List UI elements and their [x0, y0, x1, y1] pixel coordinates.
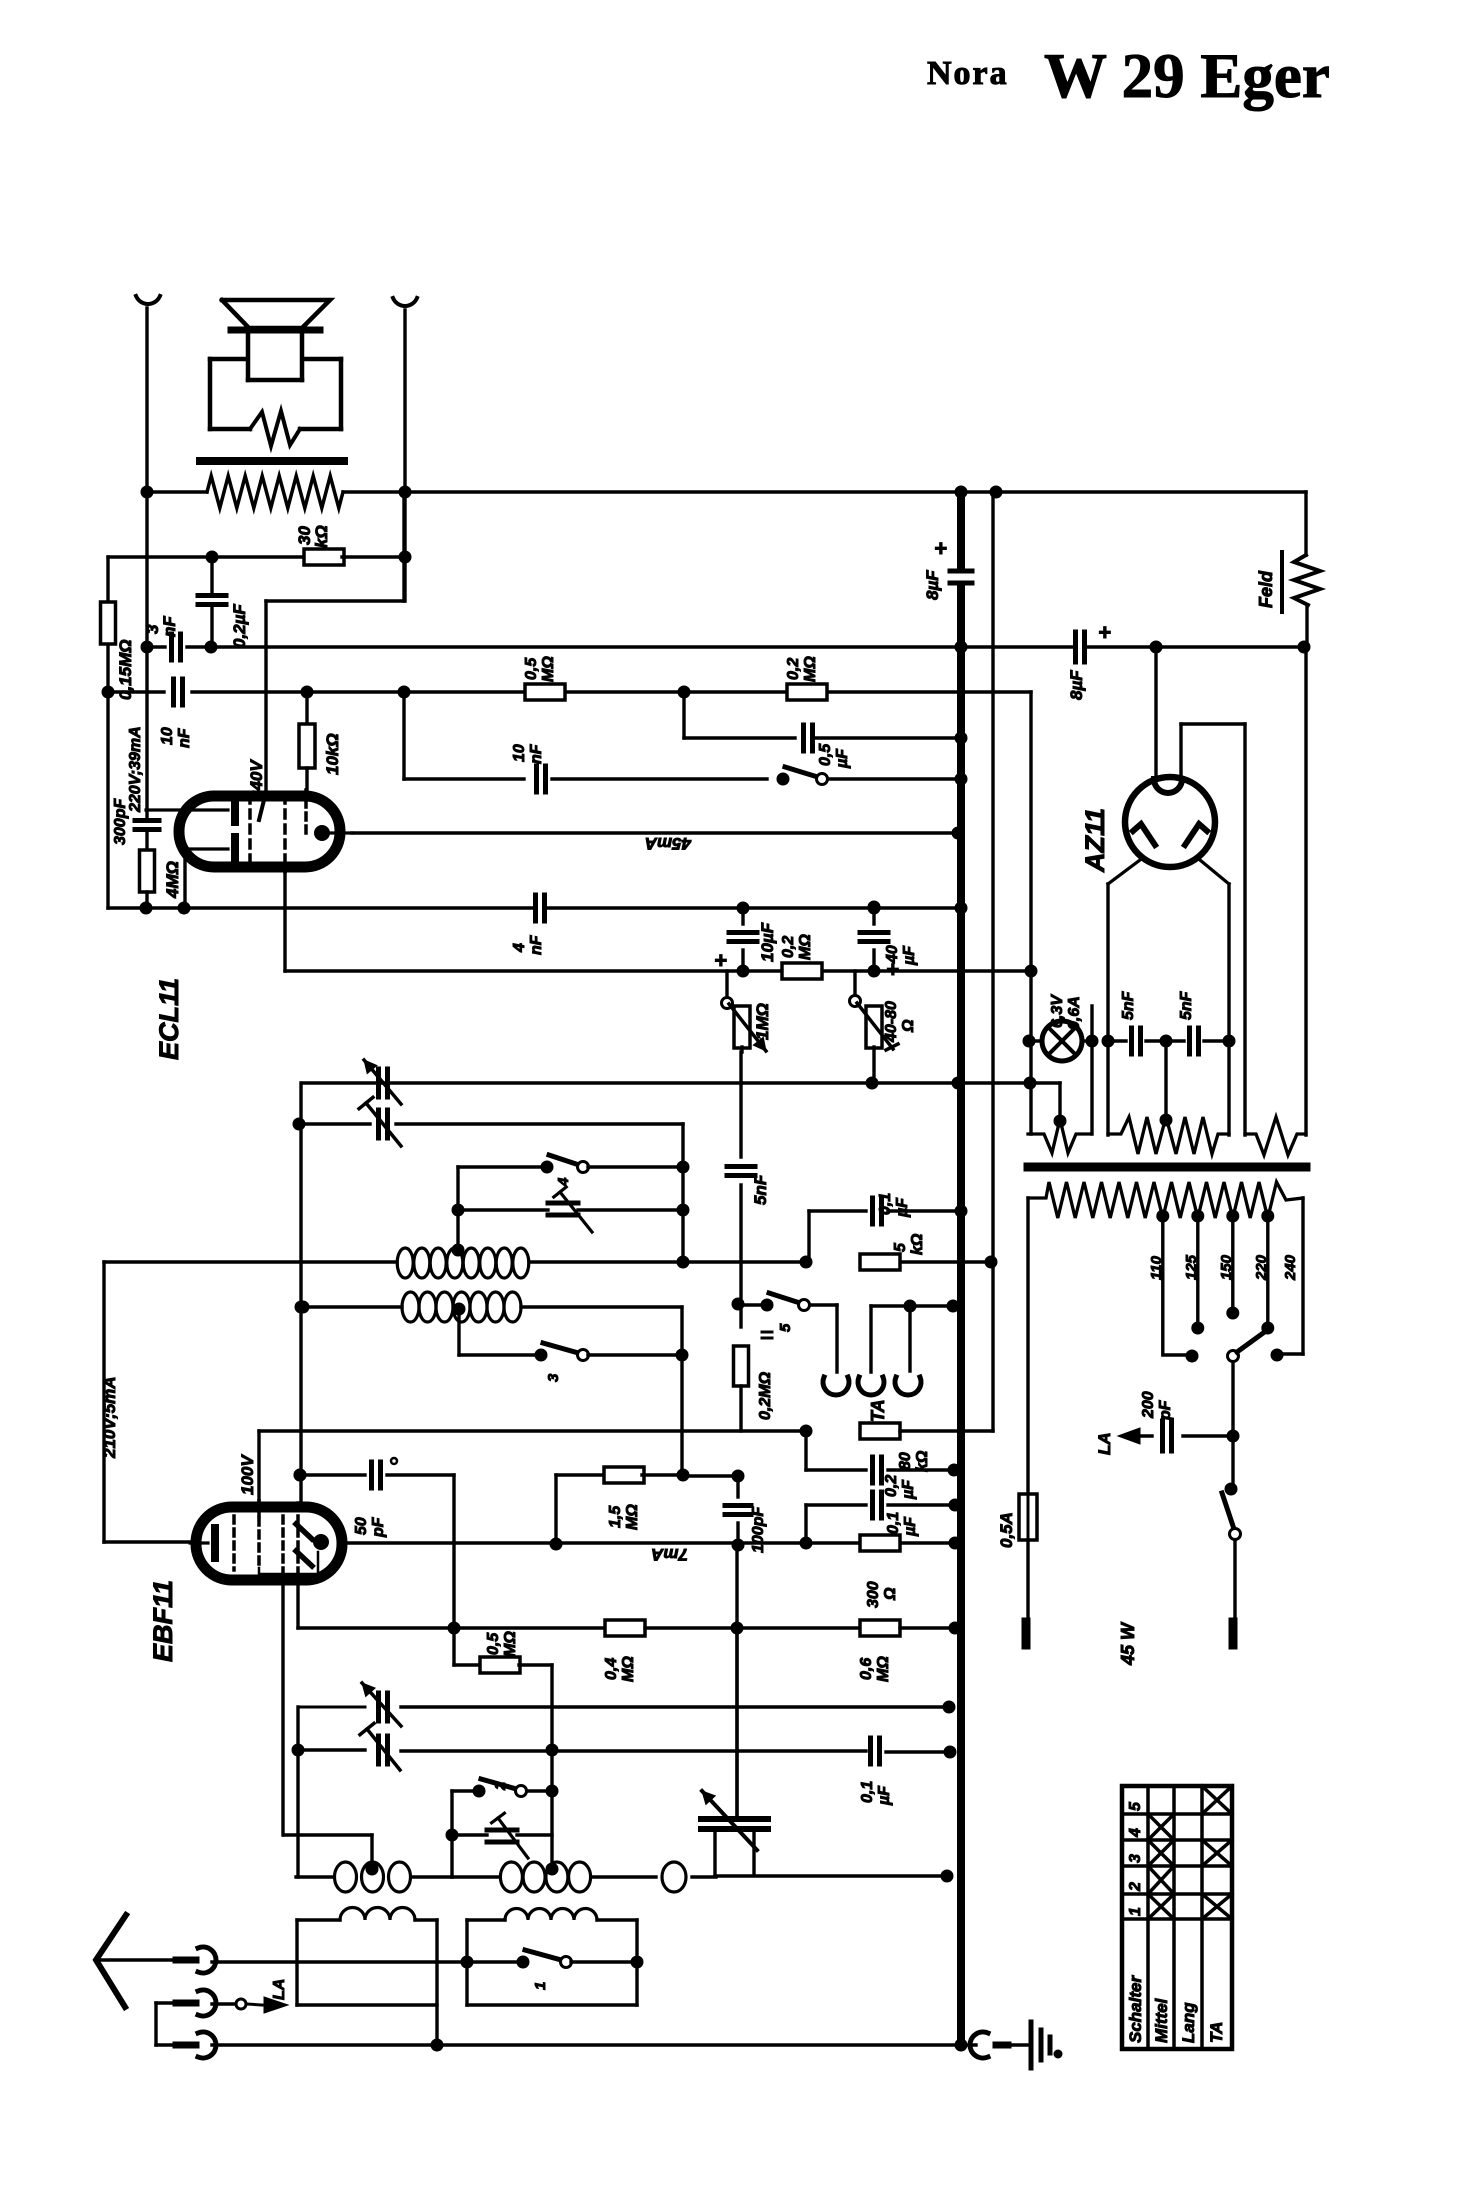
svg-text:0,1: 0,1 [859, 1781, 876, 1803]
svg-text:5: 5 [777, 1323, 794, 1332]
wire 647 to Feld [1156, 641, 1310, 653]
coil oscillator primary [397, 1244, 529, 1278]
svg-text:Ω: Ω [900, 1019, 917, 1033]
svg-text:µF: µF [876, 1785, 893, 1806]
wire primary right 240 [1271, 1198, 1303, 1361]
capacitor trimmer 2 [452, 1813, 552, 1858]
svg-text:3: 3 [1127, 1854, 1144, 1863]
svg-text:5nF: 5nF [1120, 990, 1137, 1020]
label Feld [1256, 552, 1282, 612]
label TA [868, 1399, 888, 1422]
capacitor 0,1µF avc [859, 1738, 956, 1806]
capacitor 5nF a [1120, 990, 1141, 1054]
wire ant gang line y1707 [298, 1683, 955, 1726]
svg-text:0,6A: 0,6A [1066, 996, 1083, 1030]
switch 5 [732, 1293, 837, 1372]
wire primary left to fuse [1026, 1198, 1029, 1494]
svg-text:Nora: Nora [927, 55, 1009, 92]
switch 2 [446, 1779, 552, 1877]
ground symbol [1031, 2022, 1062, 2068]
wire ECL11 cathode pin [183, 849, 186, 908]
label AZ11 [1080, 808, 1110, 873]
terminal mains right [1229, 1622, 1238, 1645]
coil oscillator secondary [297, 1292, 682, 1355]
svg-text:300: 300 [865, 1581, 882, 1608]
wire lamp right stub [1090, 1006, 1093, 1134]
wire top line y492 [148, 486, 1306, 498]
svg-text:5nF: 5nF [1178, 990, 1195, 1020]
wire osc anode line y1262 [104, 1256, 997, 1268]
capacitor 5nF mid [727, 1052, 770, 1304]
coil Feld (field) [1294, 492, 1320, 647]
svg-text:MΩ: MΩ [802, 656, 819, 682]
svg-text:4: 4 [555, 1177, 572, 1187]
svg-text:MΩ: MΩ [875, 1656, 892, 1682]
output transformer core [200, 457, 344, 465]
wire ECL11 cathode line y908 [108, 902, 967, 914]
tube EBF11 internals [190, 1501, 329, 1580]
svg-text:nF: nF [528, 743, 545, 764]
svg-text:Lang: Lang [1179, 2002, 1198, 2043]
label 210V,5mA [100, 1376, 119, 1459]
svg-text:+: + [886, 957, 899, 982]
title W 29 Eger [1044, 41, 1330, 111]
wire EBF11 plate line 7mA [342, 1537, 961, 1549]
svg-text:nF: nF [160, 616, 179, 637]
wire B+ feed x992 [991, 492, 994, 1262]
wire EBF11 diode pin x283 [281, 1580, 284, 1835]
wire grid return y971 [285, 965, 1037, 977]
svg-text:125: 125 [1183, 1254, 1200, 1280]
svg-text:5nF: 5nF [751, 1174, 770, 1205]
svg-text:Schalter: Schalter [1126, 1975, 1145, 2043]
capacitor 10nF left [159, 679, 193, 748]
capacitor 0,2µF bypass [806, 1431, 960, 1500]
resistor 80kΩ [860, 1262, 993, 1472]
terminal LS right (Y cup) [393, 298, 417, 306]
svg-text:40-80: 40-80 [883, 1001, 900, 1043]
resistor 0,2MΩ top [785, 656, 827, 700]
capacitor 4nF [511, 895, 545, 955]
svg-text:5: 5 [1127, 1801, 1144, 1811]
capacitor 8µF first [923, 536, 972, 600]
capacitor 8µF second [1067, 620, 1162, 700]
svg-text:AZ11: AZ11 [1080, 808, 1110, 873]
capacitor 0,1µF bypass [806, 1492, 961, 1545]
fuse 0,5A [997, 1494, 1037, 1622]
svg-text:0,5: 0,5 [817, 743, 834, 766]
tap 150 [1218, 1218, 1239, 1319]
resistor 4MΩ [140, 833, 183, 908]
capacitor trimmer osc gang [364, 1060, 401, 1104]
svg-text:nF: nF [176, 727, 193, 748]
wire AZ11 filament left [1102, 860, 1140, 1135]
svg-text:Mittel: Mittel [1152, 1997, 1171, 2043]
wire 5nF line y1041 [1108, 1035, 1229, 1119]
svg-text:80: 80 [897, 1452, 914, 1470]
svg-text:50: 50 [353, 1517, 370, 1535]
terminal mains left [1022, 1622, 1031, 1645]
label 45mA [645, 834, 692, 853]
tube AZ11 anode marks [1133, 824, 1207, 845]
transformer core [1028, 1163, 1306, 1172]
wire LS-right vertical x405 [399, 310, 411, 601]
svg-text:1: 1 [1127, 1907, 1144, 1916]
wire EBF11 diode line y1835 [284, 1835, 372, 1866]
svg-text:MΩ: MΩ [624, 1504, 641, 1530]
wire AZ11 anode1 feed [1154, 647, 1157, 777]
svg-text:TA: TA [1207, 2022, 1226, 2043]
svg-text:0,5: 0,5 [523, 657, 540, 680]
wire x108 lower [102, 686, 114, 908]
svg-text:MΩ: MΩ [797, 934, 814, 960]
svg-text:150: 150 [1218, 1254, 1235, 1280]
svg-text:8µF: 8µF [1067, 670, 1086, 700]
svg-text:10: 10 [511, 744, 528, 762]
svg-text:110: 110 [1148, 1255, 1165, 1280]
wire antenna line y1960 [100, 1947, 467, 1973]
tap 110 [1148, 1218, 1198, 1362]
resistor 300Ω [860, 1535, 900, 1608]
svg-text:220: 220 [1253, 1254, 1270, 1281]
jack LA input [156, 1979, 288, 2016]
svg-text:2: 2 [1127, 1882, 1144, 1892]
capacitor main tuning [701, 1630, 953, 1882]
svg-text:45mA: 45mA [645, 834, 692, 853]
svg-text:0,5: 0,5 [485, 1632, 502, 1655]
table X marks TA [1202, 1786, 1232, 1919]
svg-text:0,2µF: 0,2µF [230, 604, 249, 648]
svg-text:240: 240 [1282, 1254, 1299, 1281]
capacitor 200pF [1095, 1391, 1233, 1455]
svg-text:0,2MΩ: 0,2MΩ [757, 1371, 774, 1420]
wire pots ground y1083 [303, 1077, 1060, 1117]
table X marks Mittel [1148, 1814, 1174, 1919]
wire detector x737 [735, 1545, 738, 1817]
svg-text:5: 5 [892, 1242, 909, 1252]
svg-text:0,5A: 0,5A [997, 1512, 1016, 1548]
svg-text:µF: µF [900, 1479, 917, 1500]
svg-text:3: 3 [545, 1373, 562, 1382]
tube AZ11 envelope [1125, 777, 1215, 867]
svg-text:+: + [934, 536, 947, 561]
wire y907 electrolytic top [868, 901, 880, 913]
svg-text:6,3V: 6,3V [1049, 994, 1066, 1028]
resistor 0,2MΩ series [734, 1304, 775, 1431]
jack TA 3 [871, 1300, 961, 1395]
svg-text:7mA: 7mA [651, 1545, 688, 1564]
jack TA 1 [823, 1377, 849, 1395]
speaker cone [222, 300, 330, 330]
switch tone (on y779) [404, 692, 967, 792]
svg-text:0,2: 0,2 [785, 658, 802, 680]
svg-text:LA: LA [1095, 1432, 1114, 1455]
coil box E (LA) [467, 1909, 637, 2005]
svg-text:LA: LA [271, 1979, 288, 2000]
label 100V [238, 1454, 257, 1495]
svg-text:0,1: 0,1 [877, 1193, 894, 1215]
capacitor 0,5µF [684, 692, 967, 769]
rheostat 40-80Ω [850, 971, 918, 1083]
svg-text:µF: µF [901, 945, 918, 966]
resistor 0,6MΩ [737, 1620, 961, 1682]
wire osc coil tap x459 [457, 1310, 460, 1355]
tube EBF11 envelope [196, 1507, 342, 1580]
transformer primary winding [1028, 1182, 1303, 1222]
svg-text:200: 200 [1140, 1391, 1157, 1419]
svg-text:MΩ: MΩ [502, 1631, 519, 1657]
resistor 0,5MΩ avc [454, 1628, 552, 1673]
svg-text:100V: 100V [238, 1454, 257, 1495]
wire heater line y692 [108, 686, 1031, 1134]
tube ECL11 envelope [179, 796, 340, 867]
resistor 0,5MΩ top [523, 656, 565, 700]
capacitor 0,2µF [198, 557, 249, 653]
svg-text:µF: µF [834, 748, 851, 769]
wire ground bottom y2045 [212, 2039, 967, 2051]
wire screen line y1431 [259, 1425, 812, 1502]
svg-text:0,1: 0,1 [885, 1512, 902, 1534]
svg-text:1: 1 [532, 1982, 549, 1990]
capacitor 40µF [860, 908, 918, 982]
wire avc x552 [546, 1665, 558, 1867]
svg-text:4MΩ: 4MΩ [163, 861, 182, 899]
svg-text:4: 4 [1127, 1828, 1144, 1838]
resistor 1,5MΩ [550, 1467, 744, 1550]
wire avc line y1751 [292, 1707, 866, 1877]
label 45 W [1118, 1621, 1138, 1666]
capacitor 5nF b [1178, 990, 1199, 1054]
wire Feld down to HV winding [1304, 647, 1307, 1135]
wire ECL11 pentode grid pin [283, 868, 286, 971]
wire osc gang line y1124 [293, 1118, 683, 1262]
wire AZ11 anode2 feed [1181, 724, 1245, 1135]
capacitor 0,1µF top [809, 1193, 967, 1262]
svg-text:MΩ: MΩ [620, 1656, 637, 1682]
svg-text:kΩ: kΩ [312, 525, 331, 548]
wire 210V feed x104 [104, 1262, 190, 1542]
svg-text:W 29 Eger: W 29 Eger [1044, 41, 1330, 111]
table Schalter grid [1122, 1786, 1232, 2049]
table row labels [1126, 1975, 1226, 2043]
capacitor 10µF [714, 908, 777, 973]
svg-text:kΩ: kΩ [909, 1233, 926, 1255]
svg-text:10kΩ: 10kΩ [323, 733, 342, 775]
svg-text:Feld: Feld [1256, 570, 1276, 608]
svg-text:100pF: 100pF [750, 1506, 767, 1553]
resistor 30kΩ [108, 525, 405, 565]
wire switch4 line y1167 [458, 1155, 689, 1248]
wire ECL11 plate 45mA line [352, 827, 964, 839]
wire EBF11 cathode pin x298 [298, 1580, 605, 1634]
capacitor 3nF [143, 616, 211, 660]
svg-text:1MΩ: 1MΩ [753, 1003, 772, 1040]
svg-text:pF: pF [370, 1516, 387, 1538]
svg-text:+: + [714, 948, 727, 973]
svg-text:TA: TA [868, 1399, 888, 1422]
selector switch [1227, 1331, 1266, 1442]
switch mains [1222, 1436, 1241, 1622]
svg-text:ECL11: ECL11 [154, 978, 184, 1060]
speaker voice coil [248, 332, 302, 380]
wire ECL11 triode grid x266 [264, 601, 267, 790]
capacitor 300pF [112, 798, 159, 845]
capacitor trimmer 4 [452, 1187, 689, 1232]
svg-text:10µF: 10µF [758, 922, 777, 962]
svg-text:MΩ: MΩ [540, 656, 557, 682]
svg-text:10: 10 [159, 727, 176, 745]
svg-text:nF: nF [528, 934, 545, 955]
output transformer secondary winding [207, 476, 343, 508]
label 7mA [651, 1545, 688, 1564]
label ECL11 [154, 978, 184, 1060]
svg-text:+: + [1098, 620, 1111, 645]
label 240V [247, 759, 266, 801]
capacitor 100pF [725, 1476, 767, 1553]
label EBF11 [148, 1580, 178, 1662]
svg-text:Ω: Ω [882, 1587, 899, 1601]
switch 1 in coil box [461, 1950, 643, 1990]
tube ECL11 internals [146, 790, 352, 872]
svg-text:EBF11: EBF11 [148, 1580, 178, 1662]
svg-text:4: 4 [511, 943, 528, 953]
svg-text:1,5: 1,5 [607, 1505, 624, 1528]
transformer heater winding 6,3V [1108, 1114, 1229, 1154]
svg-text:2: 2 [492, 1781, 509, 1791]
wire LS-left vertical x148 [141, 308, 153, 817]
coil antenna chain [296, 1862, 716, 1892]
label 220V,39mA [127, 726, 144, 813]
resistor 0,4MΩ [603, 1620, 743, 1682]
tap 220 [1253, 1218, 1274, 1334]
coil box D (antenna) [297, 1907, 437, 2045]
svg-text:220V;39mA: 220V;39mA [127, 726, 144, 813]
potentiometer 1MΩ [722, 971, 773, 1052]
capacitor 50pF [294, 1458, 454, 1628]
transformer winding AZ11 [1245, 1117, 1306, 1155]
wire AZ11 filament right [1200, 860, 1235, 1135]
svg-text:45 W: 45 W [1118, 1621, 1138, 1666]
tap 125 [1183, 1218, 1204, 1334]
label 4 [555, 1177, 572, 1187]
svg-text:pF: pF [1157, 1399, 1174, 1421]
wire ground to earth [961, 2032, 1029, 2058]
resistor 10kΩ [299, 692, 342, 790]
switch 3 [459, 1343, 688, 1475]
label 10nF (y779 cap) [511, 743, 545, 764]
capacitor trimmer osc [359, 1097, 401, 1146]
svg-text:µF: µF [894, 1197, 911, 1218]
jack TA 2 [858, 1306, 884, 1395]
bus ground x961 [957, 492, 965, 2045]
svg-text:0,4: 0,4 [603, 1658, 620, 1680]
svg-text:µF: µF [902, 1516, 919, 1537]
resistor 5kΩ [860, 1233, 926, 1270]
lamp 6,3V 0,6A [1023, 994, 1098, 1061]
wire ground line y647 [211, 641, 1073, 653]
svg-text:0,2: 0,2 [883, 1475, 900, 1497]
svg-text:0,6: 0,6 [858, 1658, 875, 1680]
terminal LS left (Y cup) [136, 296, 160, 304]
speaker magnet box with hum coil [210, 359, 341, 446]
wire EBF11 top grid x301 [294, 1083, 307, 1502]
wire x404 down to corner [266, 492, 404, 601]
jack ground input [156, 2003, 216, 2058]
svg-text:0,2: 0,2 [780, 936, 797, 958]
antenna symbol [96, 1915, 126, 2007]
title Nora [927, 55, 1009, 92]
svg-text:8µF: 8µF [923, 570, 942, 600]
svg-text:300pF: 300pF [112, 798, 129, 845]
resistor 0,15MΩ [101, 557, 136, 700]
table numbers [1127, 1801, 1144, 1916]
transformer heater winding lamp [1028, 1115, 1090, 1153]
resistor 0,2MΩ bias [780, 934, 822, 979]
